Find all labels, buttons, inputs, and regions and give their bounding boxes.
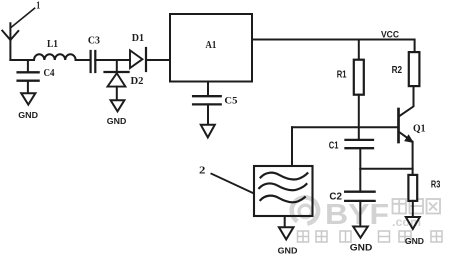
svg-text:2: 2 xyxy=(199,165,205,176)
svg-text:C4: C4 xyxy=(44,68,55,79)
svg-text:C2: C2 xyxy=(329,191,342,202)
svg-text:L1: L1 xyxy=(47,39,58,50)
capacitor C1 xyxy=(329,140,373,151)
ground under R3 xyxy=(405,217,424,246)
diode D2 xyxy=(105,60,144,100)
svg-text:GND: GND xyxy=(107,116,127,126)
svg-text:GND: GND xyxy=(18,110,38,120)
filter box (component 2) xyxy=(254,166,313,216)
wire C5 to ground xyxy=(207,104,209,124)
wire C2 to ground xyxy=(359,201,361,226)
resistor R2 xyxy=(392,52,420,86)
wire D1 to A1 xyxy=(146,59,170,61)
wire antenna to L1 xyxy=(10,59,34,61)
wire R3 to ground xyxy=(412,201,414,217)
svg-text:R2: R2 xyxy=(392,65,403,76)
svg-text:VCC: VCC xyxy=(381,30,399,41)
wire A1 bottom to C5 xyxy=(207,82,209,96)
wire L1 to C3 xyxy=(76,59,90,61)
svg-text:D2: D2 xyxy=(131,76,144,87)
resistor R3 xyxy=(408,175,440,201)
wire C1 to C2 xyxy=(359,148,361,191)
svg-text:R3: R3 xyxy=(431,179,441,190)
capacitor C5 xyxy=(193,96,237,107)
svg-text:GND: GND xyxy=(278,245,298,255)
transistor Q1 xyxy=(399,86,426,175)
wire rail junction down to R1 xyxy=(358,40,360,60)
capacitor C4 xyxy=(18,60,55,93)
svg-text:1: 1 xyxy=(36,1,40,12)
resistor R1 xyxy=(337,60,364,95)
ground under C5 xyxy=(201,125,215,138)
capacitor C2 xyxy=(329,191,374,202)
svg-text:GND: GND xyxy=(405,236,424,246)
ground under D2 xyxy=(107,100,127,126)
block A1 xyxy=(170,14,252,82)
capacitor C3 xyxy=(88,36,100,72)
svg-text:GND: GND xyxy=(350,243,373,253)
svg-text:C3: C3 xyxy=(88,36,100,47)
wire A1 output to VCC rail corner xyxy=(252,40,415,53)
svg-text:A1: A1 xyxy=(205,39,216,51)
callout line to label 1 xyxy=(11,8,35,27)
antenna (node 1 pickup) xyxy=(2,23,18,60)
svg-text:Q1: Q1 xyxy=(413,124,426,135)
wire base xyxy=(292,126,397,128)
wire R1 bottom to C1 (base node) xyxy=(358,95,360,140)
ground under filter box xyxy=(278,227,298,255)
wire base corner down to filter box xyxy=(291,127,293,166)
svg-text:C1: C1 xyxy=(329,140,339,151)
ground under C4 xyxy=(18,93,38,120)
callout line to label 2 xyxy=(211,174,253,194)
wire emitter tap xyxy=(360,168,412,170)
wire filter box to ground xyxy=(284,216,286,227)
wire C3 to D1 xyxy=(95,59,130,61)
svg-text:R1: R1 xyxy=(337,70,347,81)
ground under C2 xyxy=(350,227,373,253)
inductor L1 xyxy=(34,39,76,60)
svg-text:D1: D1 xyxy=(132,33,144,44)
svg-text:C5: C5 xyxy=(224,96,237,107)
diode D1 xyxy=(130,33,146,71)
